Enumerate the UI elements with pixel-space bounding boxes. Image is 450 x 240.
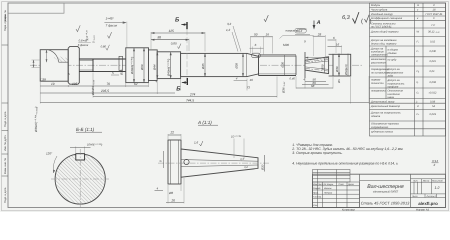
svg-text:Утв.: Утв.	[313, 204, 318, 207]
svg-text:зуба: зуба	[387, 74, 394, 77]
svg-text:3. Острые кромки притупить.: 3. Острые кромки притупить.	[292, 151, 342, 155]
svg-text:Ø45: Ø45	[201, 63, 205, 70]
svg-text:0,019: 0,019	[430, 113, 437, 116]
svg-text:Fₓ: Fₓ	[417, 41, 420, 44]
shaft step 4	[149, 50, 158, 81]
dimension 125 above	[151, 32, 205, 52]
gear face width dim	[305, 57, 329, 59]
svg-text:Иванов: Иванов	[324, 187, 332, 190]
svg-text:по зубу: по зубу	[388, 58, 397, 61]
svg-text:Масса: Масса	[423, 180, 430, 183]
section B-B keyway	[76, 154, 85, 160]
svg-text:Лит.: Лит.	[412, 180, 419, 183]
svg-text:22: 22	[170, 131, 175, 135]
svg-text:Ø36к6(⁺⁰·⁰¹⁸₊₀,₀₀₂): Ø36к6(⁺⁰·⁰¹⁸₊₀,₀₀₂)	[34, 107, 38, 133]
svg-text:Ø50(а11): Ø50(а11)	[345, 64, 348, 76]
svg-text:Инв. № дубл.: Инв. № дубл.	[4, 135, 7, 151]
svg-text:Ø40к6(⁺⁰·⁰¹⁸): Ø40к6(⁺⁰·⁰¹⁸)	[130, 57, 134, 75]
svg-text:Сталь 45 ГОСТ 1050-2013: Сталь 45 ГОСТ 1050-2013	[361, 201, 410, 206]
svg-text:Ø30: Ø30	[335, 66, 339, 73]
view A pin hole	[184, 159, 189, 164]
svg-text:Б-Б (1:1): Б-Б (1:1)	[76, 127, 95, 132]
svg-text:Число зубьев: Число зубьев	[371, 9, 388, 12]
shaft centerline	[30, 64, 362, 66]
keyway depth dim left of face	[32, 60, 41, 68]
svg-text:16: 16	[250, 78, 254, 82]
svg-text:Ø50: Ø50	[321, 64, 325, 71]
svg-text:1×45°: 1×45°	[106, 17, 115, 21]
svg-text:73: 73	[247, 86, 251, 90]
diameter dim line O45 in step 5	[201, 53, 206, 76]
shaft step 1 (left journal O36k6)	[40, 50, 68, 81]
svg-text:показатели: показатели	[371, 90, 386, 93]
svg-text:Ø60: Ø60	[140, 64, 144, 71]
transition ring before gear	[296, 52, 305, 78]
svg-text:Пров.: Пров.	[313, 191, 319, 194]
svg-text:измерительн.: измерительн.	[371, 54, 388, 57]
svg-text:Ø44: Ø44	[153, 64, 157, 71]
diameter dim line O38 groove in step 5	[235, 53, 244, 76]
svg-text:±0,012: ±0,012	[429, 92, 437, 95]
dimension row 2 below shaft	[40, 92, 175, 94]
svg-text:Ø40к6(⁺⁰·⁰¹⁸): Ø40к6(⁺⁰·⁰¹⁸)	[167, 59, 171, 77]
svg-text:Т.контр.: Т.контр.	[313, 196, 322, 199]
svg-text:Дата: Дата	[347, 183, 355, 186]
svg-text:1:2: 1:2	[435, 186, 440, 190]
svg-text:Петров: Петров	[324, 191, 333, 194]
svg-text:точности: точности	[371, 82, 384, 85]
svg-text:Ø36₋₀,₆₂: Ø36₋₀,₆₂	[282, 81, 286, 94]
svg-text:А: А	[316, 20, 321, 26]
right section texts	[411, 180, 443, 198]
svg-text:0,008: 0,008	[430, 81, 437, 84]
svg-text:Коэффициент смещения: Коэффициент смещения	[371, 17, 403, 20]
thread minor lines on neck	[80, 61, 93, 70]
svg-text:7-С: 7-С	[431, 24, 435, 27]
svg-text:0,80: 0,80	[171, 41, 177, 45]
svg-text:Листов 1: Листов 1	[426, 195, 438, 198]
svg-text:Исходный контур: Исходный контур	[371, 13, 393, 16]
svg-text:3,3: 3,3	[240, 158, 244, 161]
svg-text:0,08: 0,08	[430, 100, 436, 103]
svg-text:26: 26	[171, 199, 176, 203]
svg-text:5₋₀,₀₃: 5₋₀,₀₃	[92, 35, 96, 43]
svg-text:Ø30: Ø30	[281, 62, 285, 69]
title block revision mini-grid	[313, 170, 351, 183]
material row	[360, 197, 446, 199]
svg-text:0,030: 0,030	[430, 50, 437, 53]
svg-text:alexfl.pro: alexfl.pro	[418, 201, 438, 206]
svg-text:длины общ. нормали: длины общ. нормали	[371, 42, 397, 45]
keyway local section hatch	[54, 56, 69, 62]
svg-text:Разраб.: Разраб.	[313, 187, 321, 190]
svg-text:0,40: 0,40	[290, 77, 296, 81]
svg-text:1,6⁺⁰·²⁵: 1,6⁺⁰·²⁵	[85, 29, 89, 40]
svg-text:обката: обката	[371, 115, 381, 118]
shaft step 2	[68, 47, 79, 85]
diameter dim line O50 in gear	[321, 58, 325, 73]
svg-text:Масштаб: Масштаб	[432, 180, 443, 183]
svg-text:76: 76	[107, 82, 111, 86]
svg-text:274: 274	[189, 93, 196, 97]
view A cone body	[181, 149, 258, 177]
svg-text:шага: шага	[388, 96, 395, 99]
svg-text:Формат А3: Формат А3	[416, 208, 430, 211]
extension lines below shaft	[40, 73, 351, 104]
roughness check above M36	[264, 15, 268, 22]
svg-text:Лист: Лист	[317, 183, 324, 186]
svg-text:-: -	[418, 13, 419, 16]
svg-text:19: 19	[51, 82, 55, 86]
threaded section M36	[259, 55, 297, 76]
svg-text:IT14: IT14	[432, 159, 438, 163]
svg-text:Подп.: Подп.	[339, 183, 345, 186]
boxed reference dim 30,2	[295, 28, 307, 33]
section cut line B-B	[186, 29, 188, 78]
shaft step 3	[126, 48, 149, 83]
svg-text:6,3: 6,3	[342, 15, 351, 21]
svg-text:30,2: 30,2	[296, 29, 302, 33]
dimension 88 above	[151, 39, 189, 41]
view A centerline	[158, 162, 270, 164]
view A keyslot plan	[168, 140, 181, 184]
svg-text:Ø8: Ø8	[168, 191, 173, 195]
section B-B keyway dim	[76, 147, 85, 154]
dim 50 and 16 above right	[251, 36, 264, 38]
title block left section grid	[313, 182, 360, 208]
diameter dim line O60 in step 3	[140, 48, 145, 83]
dimension row 274	[93, 96, 277, 98]
shaft step 5 (long middle)	[181, 53, 247, 76]
svg-text:Ø24h9₋₀,₀₅: Ø24h9₋₀,₀₅	[91, 79, 95, 96]
svg-text:0,80: 0,80	[101, 44, 107, 48]
keyway depth dim in step 1	[46, 50, 48, 63]
svg-text:А (1:1): А (1:1)	[197, 120, 212, 125]
svg-text:1,6: 1,6	[194, 140, 199, 144]
svg-text:№ докум.: № докум.	[324, 183, 334, 186]
bevel gear teeth section	[305, 57, 329, 74]
grinding groove on neck	[119, 56, 123, 70]
svg-text:2: 2	[433, 163, 436, 167]
svg-text:Подп. и дата: Подп. и дата	[4, 187, 7, 203]
svg-text:fₚₜ: fₚₜ	[417, 92, 420, 95]
svg-text:Вал-шестерня: Вал-шестерня	[367, 184, 404, 190]
svg-text:36,12₋₀,₁₂: 36,12₋₀,₁₂	[428, 31, 439, 34]
svg-text:ГОСТ 9587-81: ГОСТ 9587-81	[426, 13, 444, 16]
svg-text:16: 16	[266, 33, 270, 37]
svg-text:Взам. инв. №: Взам. инв. №	[4, 158, 7, 174]
gear parameter table text	[370, 4, 443, 133]
diameter dim O30 inside thread section	[284, 55, 286, 76]
svg-text:Делительный диаметр: Делительный диаметр	[370, 105, 401, 108]
svg-text:расстояния: расстояния	[370, 61, 386, 64]
svg-text:зубчатого колеса: зубчатого колеса	[370, 131, 393, 134]
svg-text:сопряжённого: сопряжённого	[371, 126, 389, 129]
svg-text:Модуль: Модуль	[371, 4, 381, 7]
svg-text:Допустимый зазор: Допустимый зазор	[370, 100, 395, 103]
svg-text:88: 88	[158, 36, 162, 40]
designation row	[360, 180, 411, 182]
title block outline	[313, 174, 446, 207]
svg-text:Копировал: Копировал	[342, 208, 355, 211]
svg-text:М36: М36	[283, 43, 289, 47]
svg-text:1,2: 1,2	[226, 28, 231, 32]
svg-text:744,5: 744,5	[186, 98, 194, 102]
left column labels	[4, 10, 7, 203]
svg-text:4. Неуказанные предельные откл: 4. Неуказанные предельные отклонения раз…	[292, 161, 398, 165]
svg-text:0,02: 0,02	[430, 41, 436, 44]
left column dividers	[2, 45, 8, 176]
section mark B-B bottom	[176, 78, 187, 93]
end journal	[333, 54, 351, 76]
top-left designation box	[8, 3, 64, 13]
title block section dividers	[359, 174, 361, 207]
svg-text:0,01: 0,01	[430, 70, 436, 73]
svg-text:Ø38: Ø38	[235, 63, 239, 70]
diameter dim line O40k6 in step 5a	[167, 52, 172, 79]
svg-text:Лист: Лист	[411, 195, 418, 198]
svg-text:по ГОСТ 1643-81: по ГОСТ 1643-81	[371, 25, 392, 28]
shaft step 5a bearing seat	[157, 52, 180, 79]
svg-text:6 фасок: 6 фасок	[78, 43, 89, 47]
right section grid	[411, 179, 446, 198]
svg-text:205,5: 205,5	[100, 89, 109, 93]
view A right vertical dim	[261, 155, 265, 172]
svg-text:7 фасок: 7 фасок	[106, 24, 118, 28]
gear parameter table grid	[370, 3, 446, 136]
svg-text:Длина общей нормали: Длина общей нормали	[370, 31, 399, 34]
cone transition	[247, 53, 259, 76]
technical notes	[291, 143, 403, 166]
svg-text:Ø10: Ø10	[120, 69, 124, 76]
svg-text:Справ. №: Справ. №	[4, 10, 7, 21]
overall length dimension	[40, 102, 369, 104]
diameter dim line O50a11 at end	[345, 54, 348, 77]
section B-B centerlines	[51, 149, 109, 208]
svg-text:Ø30: Ø30	[261, 164, 265, 171]
bevel gear root line bottom	[305, 67, 329, 70]
neck section with thread	[79, 59, 126, 72]
svg-text:□38: □38	[41, 78, 47, 82]
svg-text:(: (	[361, 18, 363, 25]
svg-text:объёме: объёме	[388, 52, 398, 55]
section mark B-B top	[175, 16, 187, 29]
svg-text:Подп. и дата: Подп. и дата	[4, 111, 7, 127]
diameter dim line O44 in step 4	[153, 52, 159, 79]
svg-text:62: 62	[134, 82, 138, 86]
title block left texts	[313, 183, 355, 207]
svg-text:105: 105	[72, 82, 78, 86]
section B-B circle	[55, 154, 105, 204]
dimension row 1 below shaft	[40, 85, 148, 87]
svg-text:Б: Б	[176, 86, 181, 93]
bevel gear tooth band hatch	[305, 57, 329, 64]
keyway slot on cone	[252, 53, 261, 57]
svg-text:50: 50	[254, 33, 258, 37]
svg-text:125: 125	[169, 29, 175, 33]
svg-text:профиля: профиля	[388, 85, 399, 88]
svg-text:одновенцовый 50ПБТ: одновенцовый 50ПБТ	[373, 191, 399, 194]
view A dim 22	[168, 134, 181, 136]
svg-text:3,2: 3,2	[227, 22, 232, 26]
svg-text:3,2: 3,2	[244, 166, 248, 169]
svg-text:Fᵦ: Fᵦ	[417, 70, 420, 73]
roughness check left of step1	[76, 25, 80, 31]
svg-text:Ø5: Ø5	[338, 79, 341, 84]
svg-text:0,015: 0,015	[430, 60, 437, 63]
svg-text:fₑ: fₑ	[417, 81, 419, 84]
diameter dim line O40k6 in step 3	[130, 48, 135, 83]
diameter dim line O30 in end journal	[335, 54, 340, 77]
svg-text:120°: 120°	[46, 152, 53, 156]
svg-text:10Н9(⁺⁰·⁰³⁶): 10Н9(⁺⁰·⁰³⁶)	[87, 142, 102, 146]
keyway slot side view with runout arc	[48, 50, 68, 62]
svg-text:по остальным: по остальным	[371, 71, 389, 74]
bevel gear pitch lines	[305, 59, 330, 71]
svg-text:16: 16	[336, 42, 340, 46]
svg-text:10⁺⁰·⁰³⁶: 10⁺⁰·⁰³⁶	[231, 135, 242, 139]
